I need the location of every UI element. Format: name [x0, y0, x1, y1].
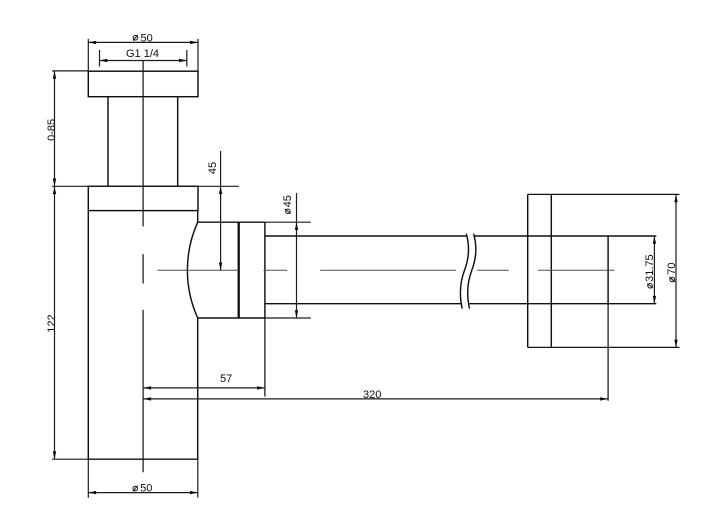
- dim 57: dimension line: [143, 387, 265, 389]
- svg-text:31.75: 31.75: [644, 254, 656, 282]
- dim 122: bottom arrow: [53, 451, 56, 459]
- dim ⌀45: bottom arrow: [295, 310, 298, 318]
- dim ⌀50 bottom: label: [133, 482, 152, 494]
- dim ⌀70: dimension line: [675, 194, 677, 347]
- dim G1 1/4: left arrow: [100, 59, 108, 62]
- svg-text:70: 70: [666, 262, 678, 274]
- horizontal centerline of outlet pipe: [158, 269, 615, 271]
- dim 122: label: [46, 314, 58, 332]
- dim 0-85: bottom arrow: [53, 179, 56, 187]
- dim 122: dimension line: [54, 186, 56, 459]
- dim ⌀50 top: label: [133, 32, 153, 44]
- dim ⌀50 bottom: extension lines: [88, 459, 198, 497]
- pipe end cap: [607, 236, 609, 304]
- svg-text:50: 50: [141, 32, 153, 44]
- neck tube right wall: [177, 97, 179, 187]
- neck tube left wall: [107, 97, 109, 187]
- dim ⌀50 bottom: right arrow: [190, 491, 198, 494]
- dim 45: label: [207, 162, 219, 174]
- dim 57: left arrow: [143, 386, 151, 389]
- lower flange (slip nut): [88, 186, 198, 210]
- dim ⌀70: bottom arrow: [674, 340, 677, 348]
- dim ⌀45: dimension line: [296, 193, 298, 318]
- dim 122: extension line bottom: [52, 458, 88, 460]
- svg-text:320: 320: [363, 389, 381, 401]
- dim 57: extension line (nut edge prolonged down): [264, 318, 266, 397]
- dim ⌀31.75: bottom arrow: [653, 296, 656, 304]
- outlet nut thick face line: [238, 222, 240, 318]
- svg-text:45: 45: [207, 162, 219, 174]
- vertical centerline of trap body: [142, 61, 144, 473]
- dim ⌀70: top arrow: [674, 194, 677, 202]
- wall flange top edge + dim ⌀70 top extension: [528, 193, 680, 195]
- dim 45: top arrow: [219, 186, 222, 194]
- dim G1 1/4: extension ticks: [100, 50, 187, 67]
- dim 320: dimension line: [143, 398, 608, 400]
- dim 0-85: extension line top: [52, 70, 88, 72]
- dim 45: bottom arrow: [219, 263, 222, 271]
- dim 320: left arrow: [143, 397, 151, 400]
- pipe break symbol right curve: [468, 234, 476, 309]
- trap body cup: [88, 211, 197, 460]
- dim ⌀45: bottom extension: [265, 317, 311, 319]
- pipe break symbol left curve: [460, 234, 468, 309]
- dim G1 1/4: dimension line: [100, 60, 187, 62]
- dim ⌀31.75: dimension line: [653, 236, 655, 304]
- dim ⌀70: label: [666, 262, 678, 281]
- wall flange bottom edge + dim ⌀70 bottom extension: [528, 346, 680, 348]
- dim ⌀45: top extension (nut top prolonged): [265, 221, 311, 223]
- wall flange left edge: [527, 194, 529, 347]
- svg-text:0-85: 0-85: [46, 119, 58, 141]
- horizontal pipe top wall: [265, 235, 656, 237]
- body-to-outlet arc (nut wrap): [187, 222, 197, 318]
- dim 0-85: dimension line: [54, 71, 56, 186]
- dim ⌀50 top: left arrow: [88, 41, 96, 44]
- dim ⌀45: label: [282, 195, 294, 213]
- svg-text:50: 50: [140, 482, 152, 494]
- dim 0-85: top arrow: [53, 71, 56, 79]
- dim ⌀50 top: right arrow: [190, 41, 198, 44]
- dim 320: extension line (pipe end prolonged down): [607, 304, 609, 401]
- dim ⌀31.75: top arrow: [653, 236, 656, 244]
- outlet nut top edge: [198, 221, 265, 223]
- top flange of tailpiece (⌀50 cap): [88, 71, 198, 97]
- dim ⌀31.75: label: [644, 254, 656, 288]
- dim ⌀50 bottom: dimension line: [88, 492, 198, 494]
- svg-text:122: 122: [46, 314, 58, 332]
- svg-text:57: 57: [220, 373, 232, 385]
- outlet nut bottom edge: [198, 317, 265, 319]
- wall flange inner edge: [550, 194, 552, 347]
- svg-text:45: 45: [282, 195, 294, 207]
- svg-text:G1 1/4: G1 1/4: [126, 48, 159, 60]
- outlet nut right edge: [264, 222, 266, 318]
- dim 45: dimension line: [220, 151, 222, 270]
- horizontal pipe bottom wall: [265, 303, 656, 305]
- dim ⌀50 top: extension lines: [88, 39, 198, 71]
- dim ⌀45: top arrow: [295, 222, 298, 230]
- dim ⌀50 bottom: left arrow: [88, 491, 96, 494]
- dim 57: right arrow: [257, 386, 265, 389]
- dim 122: extension line mid (through flange top): [52, 185, 239, 187]
- dim G1 1/4: right arrow: [179, 59, 187, 62]
- dim 122: top arrow: [53, 186, 56, 194]
- dim ⌀50 top: dimension line: [88, 41, 198, 43]
- dim 320: right arrow: [600, 397, 608, 400]
- dim 0-85: label: [46, 119, 58, 141]
